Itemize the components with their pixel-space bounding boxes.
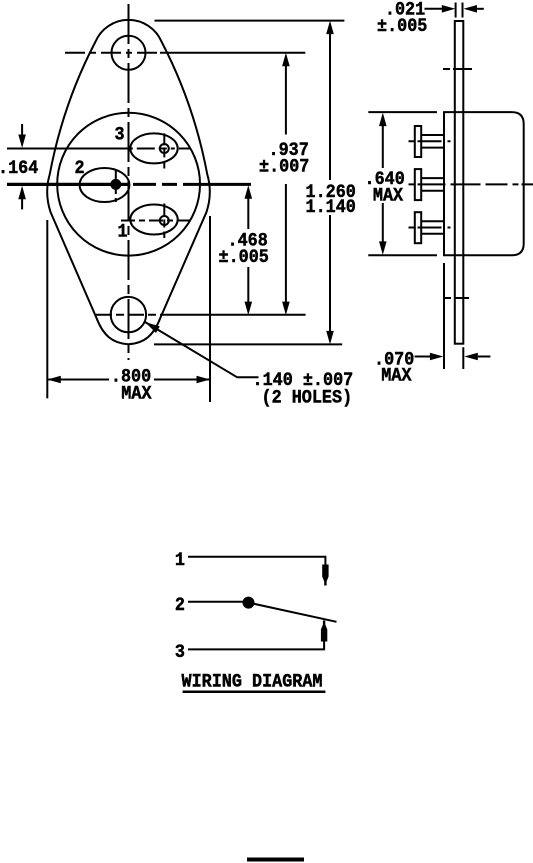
svg-text:±.005: ±.005 [377,16,427,37]
.021 extension line left [455,3,457,18]
arrow .070 right-pointing [430,353,444,361]
pin 2 side: pin lines [421,178,444,191]
pin 3 circle [160,144,169,153]
WIRING DIAGRAM [183,557,337,692]
pin 2 side: cap [415,169,421,200]
.937 dimension line lower [285,184,287,304]
can circle [57,113,200,256]
SIDE VIEW [368,3,523,370]
side view pins [409,126,533,243]
pin 3 row line (solid to centerline) [7,148,129,150]
bottom hole horizontal centerline [96,314,162,316]
arrow .021 right-pointing [442,5,456,13]
svg-text:2: 2 [175,595,185,616]
svg-text:(2 HOLES): (2 HOLES) [262,388,353,409]
svg-text:.164: .164 [0,158,39,179]
.640 bottom extension line [368,254,437,256]
body (can side view) [444,112,524,255]
.021 right arrow line [475,8,484,10]
vertical centerline front view [128,4,130,360]
contact dot on pin 2 wire [243,597,255,609]
svg-text:1: 1 [118,222,128,243]
.070 left arrow line [415,356,432,358]
.468 dimension line lower [247,267,249,304]
switch blade (slanted line) [249,603,337,622]
pin 1 side: cap [415,212,421,243]
TO-3 flange outline (front view) [47,20,209,344]
pin 2 circle [111,180,120,189]
.640 dimension line upper [382,124,384,168]
.800 dimension line left [47,379,109,381]
.070 right arrow line [476,356,490,358]
.937 dimension line upper [285,64,287,135]
.164 dimension lower line [21,198,23,209]
svg-text:±.005: ±.005 [219,247,269,268]
.800 left extension line [46,220,48,398]
svg-text:1: 1 [175,550,185,571]
pin 3 side: cap [415,126,421,157]
.640 dimension line lower [382,203,384,243]
arrow .640 up [379,113,387,127]
arrow up (pin 3 contact) [321,621,327,642]
top hole centerline mark on plate [443,68,472,70]
top hole center extension line to right [160,52,305,54]
pin 2 vertical dash [115,170,117,202]
arrow .937 down [282,302,290,316]
DIMENSIONS FRONT VIEW [22,32,330,402]
.164 dimension upper line [21,124,23,136]
svg-text:3: 3 [175,642,185,663]
.640 top extension line [368,111,437,113]
wire from pin 1 [188,557,325,570]
main horizontal centerline dashed part [133,183,251,186]
main horizontal centerline [7,183,130,186]
page footer bar [247,858,304,862]
.800 right extension line [209,216,211,402]
pin 3 row centerline (dashed to can edge) [129,148,191,150]
pin 1 circle [160,216,169,225]
FRONT VIEW [47,20,209,344]
wire from pin 3 [188,638,324,649]
svg-text:MAX: MAX [121,384,152,405]
arrow .164 up [18,186,26,200]
bottom hole center extension line to right [162,314,306,316]
pin 3 seal oval [130,133,177,163]
arrowheads [18,21,334,384]
arrow 1.260 down [326,331,334,345]
pin 1 side: pin lines [421,221,444,234]
underline of WIRING DIAGRAM [183,691,326,694]
pin 1 vertical dash [163,204,165,239]
top hole horizontal centerline [65,52,160,54]
svg-text:MAX: MAX [373,186,404,207]
arrow .164 down [18,135,26,149]
pin 3 side centerline [409,140,451,142]
bottom hole centerline mark on plate [444,297,469,299]
pin 2 seal oval [80,168,130,202]
arrow .468 down [245,302,253,316]
arrow down (pin 1 contact) [322,565,328,586]
top mounting hole [112,36,146,70]
.021 extension line right [462,3,464,18]
wire from pin 2 [188,601,244,603]
pin 1 seal oval [130,205,177,235]
arrow 1.260 up [326,21,334,34]
arrow .800 right [197,376,211,384]
leader arrowhead at bottom hole [145,322,160,333]
.800 dimension line right [154,379,210,381]
side view arrowheads [379,5,478,360]
svg-text:1.140: 1.140 [306,197,356,218]
svg-text:WIRING DIAGRAM: WIRING DIAGRAM [182,672,323,693]
.468 dimension line upper [247,197,249,229]
plate-right extension line below [462,347,464,369]
arrow .021 left-pointing [464,5,478,13]
arrow .070 left-pointing [464,353,478,361]
pin 1 side centerline [409,227,451,229]
svg-text:MAX: MAX [381,366,412,387]
top extension line (flange top) [155,20,345,22]
svg-text:3: 3 [115,125,125,146]
arrow .800 left [47,376,61,384]
1.260 dimension line lower [329,215,331,333]
bottom mounting hole [111,297,146,332]
svg-text:±.007: ±.007 [259,157,309,178]
flange bottom extension line [154,343,342,345]
flange plate (side view) [455,21,464,344]
pin 3 side: pin lines [421,135,444,148]
1.260 dimension line upper [329,32,331,180]
arrow .468 up [245,185,253,199]
.021 left arrow line [425,8,444,10]
arrow .640 down [379,241,387,255]
leader line to bottom hole [145,322,259,377]
pin 1 row centerline [121,220,190,222]
arrow .937 up [282,53,290,66]
svg-text:2: 2 [75,158,85,179]
pin 3 vertical dash [163,133,165,168]
body-face extension line below [443,263,445,369]
pin 2 / main centerline side view [409,183,533,185]
